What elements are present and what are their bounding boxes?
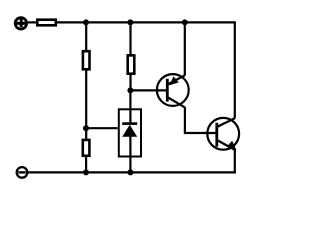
wire R4 to bottom rail xyxy=(85,156,87,173)
box around zener D1 xyxy=(119,109,141,156)
wire bottom rail xyxy=(28,171,236,173)
resistor R4 (vertical, lower left) xyxy=(83,140,90,156)
transistor Q1 (PNP) xyxy=(157,74,189,107)
zener diode D1 (cathode bar) xyxy=(122,122,137,125)
wire from + terminal to R1 xyxy=(28,21,37,23)
wire node to zener box left edge xyxy=(86,127,118,129)
wire Q2 collector up to top rail (right edge) xyxy=(234,21,236,118)
node dot bottom-middle xyxy=(127,169,133,175)
transistor Q2 (NPN) xyxy=(207,118,239,150)
wire top rail xyxy=(57,21,235,23)
wire Q1 collector (top rail down) xyxy=(184,22,186,75)
node dot bottom-left xyxy=(83,169,89,175)
node dot top-left (x=86) xyxy=(83,19,89,25)
wire Q2 emitter down to bottom rail xyxy=(234,150,236,173)
resistor R2 (vertical, upper left) xyxy=(83,51,90,69)
terminal + (positive input) xyxy=(15,18,26,29)
wire middle branch (top rail down to R3) xyxy=(129,22,131,55)
node dot top-middle (x=130.4) xyxy=(127,19,133,25)
wire Q1 emitter down then right to Q2 base xyxy=(185,107,217,133)
node dot middle (x=130.4,y=90.4) xyxy=(127,87,133,93)
wire middle node down into zener box xyxy=(129,90,131,122)
wire node down to R4 xyxy=(85,128,87,140)
wire zener anode to bottom rail xyxy=(129,136,131,172)
resistor R1 (horizontal, top left) xyxy=(37,20,56,26)
wire left branch upper (top rail down to R2) xyxy=(85,22,87,51)
wire R2 to lower-left node xyxy=(85,69,87,128)
terminal − (negative input) xyxy=(17,167,28,178)
wire R3 to middle node xyxy=(129,74,131,91)
wire base of Q1 xyxy=(130,89,166,91)
resistor R3 (vertical, middle) xyxy=(128,55,135,73)
node dot left (x=86,y=128) xyxy=(83,125,89,131)
node dot top-right (x=184.8) xyxy=(182,19,188,25)
zener diode D1 (anode triangle) xyxy=(122,125,137,137)
